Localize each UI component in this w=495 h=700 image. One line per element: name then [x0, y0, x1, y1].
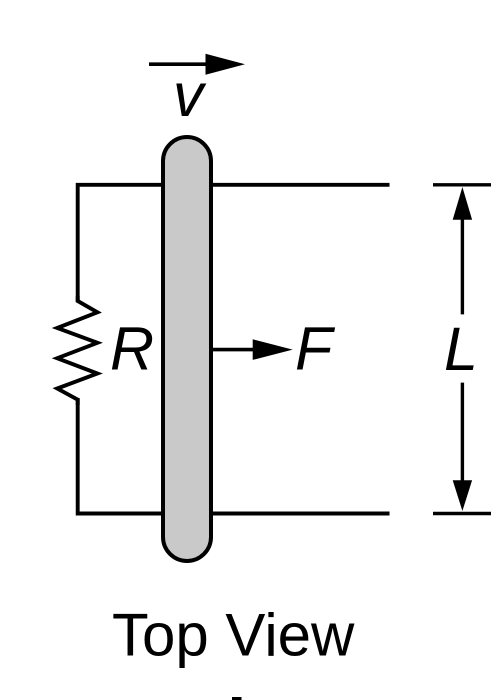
- cropped mark at bottom edge: [232, 697, 242, 700]
- svg-text:Top View: Top View: [112, 602, 355, 669]
- velocity arrowhead: [206, 54, 246, 75]
- force arrow shaft: [212, 348, 255, 352]
- svg-text:F: F: [295, 315, 336, 383]
- wire: top rail and left vertical drop to resistor: [78, 185, 390, 302]
- dimension top tick: [433, 183, 491, 186]
- svg-text:R: R: [110, 315, 154, 383]
- svg-text:L: L: [444, 315, 478, 383]
- dimension up arrowhead: [453, 187, 472, 220]
- dimension bottom tick: [433, 512, 491, 515]
- velocity arrow shaft: [149, 62, 208, 66]
- wire: left vertical below resistor and bottom rail: [78, 398, 390, 514]
- force arrowhead: [253, 339, 293, 360]
- resistor R (zigzag): [57, 296, 97, 405]
- sliding rod (gray bar): [163, 137, 211, 561]
- svg-text:v: v: [173, 61, 207, 129]
- dimension lower line segment: [461, 383, 464, 485]
- dimension upper line segment: [461, 215, 464, 314]
- dimension down arrowhead: [453, 480, 472, 511]
